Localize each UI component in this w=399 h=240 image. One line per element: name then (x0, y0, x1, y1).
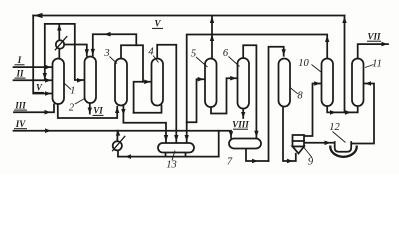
column 6 (238, 58, 250, 109)
label stream VII (367, 31, 381, 41)
svg-text:VIII: VIII (232, 119, 249, 129)
wire column 5 overhead riser to stream V line (211, 16, 213, 58)
wire vessel 9 outlet to heater 12 (304, 142, 335, 144)
svg-text:V: V (154, 19, 161, 29)
svg-text:VII: VII (367, 31, 381, 41)
leader line 3 (110, 57, 118, 64)
wire stream IV line to drums (14, 131, 219, 157)
svg-text:7: 7 (227, 157, 233, 168)
wire column 1 overhead riser (58, 49, 60, 59)
wire reflux box over column 1 (45, 24, 84, 80)
wire column 6 bottoms stream VIII (242, 109, 244, 119)
wire column 3 bottoms to drum 13 (123, 106, 166, 142)
label stream IV (14, 119, 27, 129)
svg-text:2: 2 (69, 103, 75, 114)
column 3 (115, 59, 127, 106)
vessel 9 (293, 135, 305, 154)
wire column 1 bottoms to column 3 (58, 104, 117, 118)
wire column 11 overhead to stream VII (358, 44, 388, 58)
leader line 10 (312, 65, 322, 73)
svg-text:4: 4 (148, 47, 154, 58)
leader line 6 (229, 57, 240, 67)
svg-text:I: I (17, 55, 22, 65)
wire column 10 overhead line to drum 13 and column 5 feed (187, 35, 328, 143)
svg-text:1: 1 (70, 86, 75, 97)
heater 12 cup (335, 142, 352, 152)
wire column 5 bottoms to column 6 side feed (211, 78, 237, 113)
svg-text:10: 10 (298, 58, 309, 69)
leader line 2 (75, 99, 85, 105)
wire top right riser from bottoms junction to stream V line (344, 16, 346, 113)
leader line 11 (365, 65, 374, 68)
wire stream II inlet (14, 79, 52, 81)
leader line 4 (153, 56, 159, 63)
wire V left descent into column 1 (33, 16, 51, 94)
wire column 2 bottoms stream VI (89, 103, 91, 114)
wire drum 7 bottoms to column 8 riser (246, 149, 269, 162)
svg-text:3: 3 (103, 48, 109, 59)
wire column 8 bottoms to vessel 9 (283, 107, 296, 161)
wire condenser to column 2 top (64, 45, 87, 56)
svg-text:5: 5 (191, 49, 196, 60)
wire column 6 overhead to drum 7 (243, 45, 256, 138)
label stream V inlet (34, 83, 45, 93)
wire vessel 9 overhead to column 10 side feed (304, 84, 321, 137)
column 2 (85, 57, 97, 104)
label stream VI (93, 106, 104, 116)
wire branch into drum 7 top (219, 131, 231, 138)
svg-text:9: 9 (308, 157, 314, 168)
wire column 4 side feed and bottom loop (134, 82, 151, 113)
svg-text:6: 6 (223, 48, 229, 59)
column 10 (322, 59, 334, 107)
leader line 8 (290, 88, 298, 94)
svg-text:IV: IV (15, 119, 27, 129)
svg-text:8: 8 (297, 91, 303, 102)
leader line 5 (196, 57, 208, 67)
leader line 13 (172, 151, 175, 161)
label stream I (15, 55, 25, 65)
svg-text:III: III (14, 100, 26, 110)
leader line 12 (333, 132, 346, 143)
wire heater 12 to column 11 side (351, 84, 374, 144)
drum 7 (229, 139, 261, 149)
column 4 (152, 59, 164, 106)
svg-text:II: II (15, 68, 24, 78)
wire pump riser to stream IV (116, 131, 119, 157)
wire drum 13 nozzles (166, 153, 186, 157)
wire branch to column 4 feed (136, 45, 143, 82)
leader line 9 (304, 147, 313, 158)
label stream III (14, 100, 27, 110)
heater 12 saucer (330, 147, 356, 157)
wire stream III inlet to column 1 bottom (14, 105, 54, 113)
svg-text:13: 13 (166, 160, 177, 171)
column 11 (352, 59, 364, 107)
pump circle (113, 141, 122, 150)
column 1 (53, 59, 65, 105)
drum 13 (158, 143, 194, 153)
condenser circle on column 1 overhead (56, 40, 64, 48)
svg-text:12: 12 (329, 122, 340, 133)
wire stream I inlet (14, 66, 52, 68)
svg-text:11: 11 (372, 59, 382, 70)
wire drum 7 riser to column 8 top feed (269, 47, 284, 161)
svg-text:V: V (36, 83, 43, 93)
svg-text:VI: VI (93, 106, 103, 116)
wire column 4 overhead to drum 13 (157, 45, 176, 142)
wire column 3 overhead to column 2 top (93, 34, 137, 58)
leader line 1 (64, 83, 72, 90)
label stream V top (152, 19, 163, 29)
label stream II (15, 68, 26, 78)
wire drum 13 bottoms line with pump (118, 156, 219, 158)
label stream VIII (232, 119, 249, 129)
wire column 10 bottoms to column 11 bottom (327, 106, 358, 112)
column 5 (205, 59, 217, 108)
wire branch to column 5 side feed (187, 79, 204, 122)
column 8 (279, 59, 291, 107)
wire stream V top line (33, 15, 344, 17)
